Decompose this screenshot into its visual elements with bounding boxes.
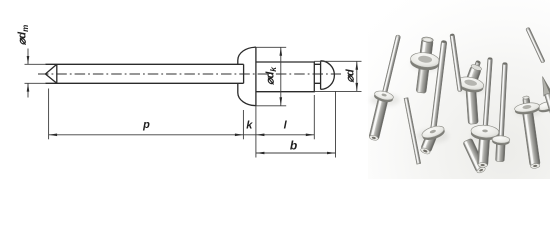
rivet photo Gp (partial) <box>491 62 514 162</box>
rivet body X (behind E flange) <box>463 138 487 174</box>
dim line b <box>256 152 336 154</box>
ext line shaft bottom (phi dm) <box>25 82 46 84</box>
arrow dk bottom <box>280 97 283 106</box>
mandrel shaft <box>45 63 243 65</box>
ext line p left <box>48 89 50 140</box>
arrow b left <box>256 152 265 155</box>
svg-text:l: l <box>284 120 288 132</box>
rivet photo H <box>419 40 447 155</box>
ext line body end down <box>313 95 315 139</box>
arrow dm top <box>27 56 30 64</box>
partial flange right edge <box>537 100 550 114</box>
rivet photo C <box>456 59 485 124</box>
mandrel hole edge in head <box>243 64 245 83</box>
svg-text:p: p <box>142 119 150 131</box>
wire centerline <box>38 73 341 75</box>
dimension / extension line work <box>25 47 362 157</box>
rivet body <box>256 62 314 92</box>
rivet head <box>238 47 256 105</box>
ext line b right <box>335 92 337 158</box>
ext line body bottom right <box>314 90 361 92</box>
arrow d top <box>356 61 359 70</box>
ext line p/k shared <box>242 110 244 139</box>
photo background wash <box>368 0 550 179</box>
dim phi-dm line <box>27 49 29 98</box>
arrow p left <box>49 134 58 137</box>
arrow l right <box>306 134 315 137</box>
loose mandrel M8 <box>538 75 550 133</box>
svg-text:⌀d: ⌀d <box>345 69 357 83</box>
arrow b right <box>327 152 336 155</box>
rivet photo G <box>514 96 548 170</box>
svg-text:b: b <box>290 139 297 153</box>
arrow dm bottom <box>27 83 30 91</box>
dim line p k l <box>49 134 315 136</box>
arrow dk top <box>280 47 283 56</box>
arrow d bottom <box>356 83 359 92</box>
rivet photo A <box>364 33 408 142</box>
svg-text:k: k <box>246 119 253 131</box>
arrow k right / l left <box>256 134 265 137</box>
mandrel shaft stub at body end <box>314 64 320 83</box>
ext line head face down <box>255 106 257 158</box>
arrowheads <box>27 47 358 154</box>
mandrel tip cone <box>45 64 56 83</box>
rivet photo B <box>407 35 443 94</box>
loose pin P11 <box>526 27 546 63</box>
loose pin Dp <box>450 34 462 92</box>
arrow p right / k left <box>235 134 244 137</box>
svg-text:⌀dk: ⌀dk <box>265 66 279 85</box>
dim phi-dk line <box>280 47 282 106</box>
svg-text:⌀dm: ⌀dm <box>17 25 31 45</box>
ext line shaft top (phi dm) <box>25 63 46 65</box>
loose mandrel M1 <box>404 98 421 165</box>
mandrel head <box>321 61 335 90</box>
ext line head bottom <box>256 105 286 107</box>
ext line body top right <box>314 60 361 62</box>
rivet photo E <box>469 57 505 169</box>
photo soft shadows <box>370 57 542 143</box>
ext line head top <box>254 46 286 48</box>
dim phi-d line <box>356 61 358 91</box>
